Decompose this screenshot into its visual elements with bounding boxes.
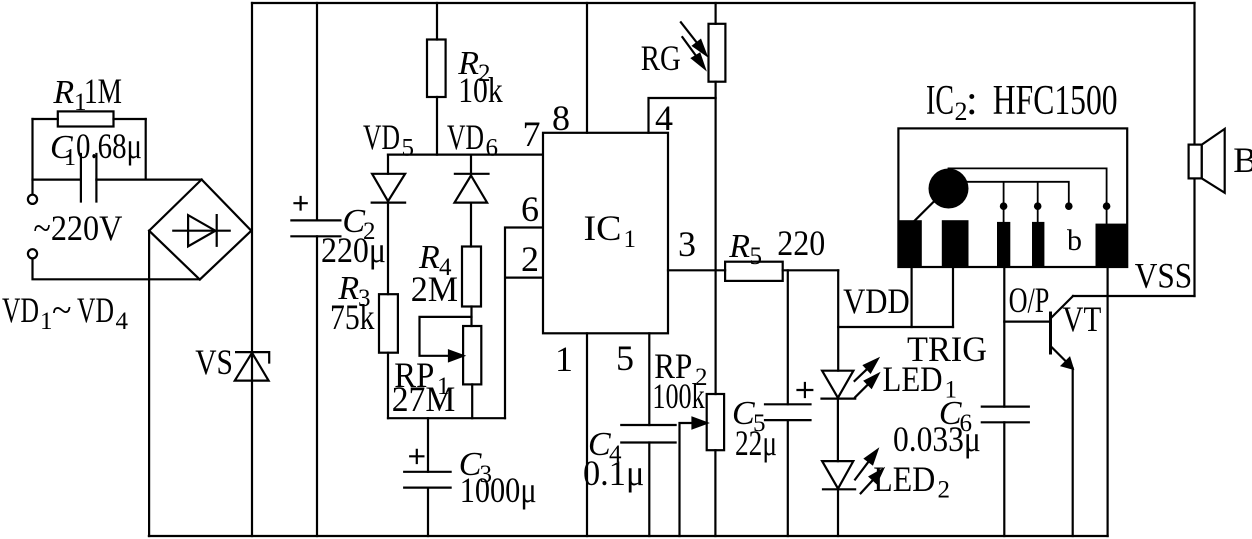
- svg-text:2: 2: [938, 477, 951, 504]
- wire bridge negative output: [148, 231, 150, 536]
- wire IC2 pin VDD: [910, 267, 912, 327]
- IC2 bond wire B: [967, 182, 1107, 224]
- potentiometer RP2: [707, 394, 724, 450]
- wire VDD rail: [837, 270, 839, 370]
- svg-text:RG: RG: [641, 38, 681, 78]
- capacitor C3: [427, 418, 429, 536]
- IC2 bond wire to pad1: [913, 202, 933, 222]
- IC2 pad 2 (TRIG): [942, 220, 969, 267]
- RG light arrow 2: [682, 37, 696, 56]
- plus C2: [295, 197, 307, 210]
- wire IC2 pin O/P: [1003, 267, 1005, 407]
- svg-text:R: R: [52, 74, 74, 111]
- svg-text:R: R: [728, 228, 750, 265]
- resistor R4: [462, 247, 481, 307]
- terminal upper: [28, 195, 37, 204]
- svg-text:O/P: O/P: [1009, 280, 1050, 320]
- wire pin 1: [586, 333, 588, 536]
- svg-text:1: 1: [40, 308, 53, 335]
- svg-text:1000μ: 1000μ: [460, 470, 537, 510]
- svg-text:22μ: 22μ: [735, 423, 777, 463]
- svg-text:5: 5: [750, 243, 763, 270]
- wire: [33, 259, 200, 280]
- capacitor C1: [81, 154, 97, 202]
- wire bottom rail: [149, 535, 1108, 537]
- svg-text:5: 5: [402, 135, 415, 162]
- resistor R5: [725, 262, 783, 281]
- svg-text:75k: 75k: [330, 297, 375, 337]
- LED LED2: [822, 461, 853, 489]
- wire IC2 pin VSS: [1106, 267, 1108, 536]
- svg-text:7: 7: [523, 114, 541, 154]
- wire pin 3: [668, 269, 725, 271]
- wire right rail: [1193, 3, 1195, 296]
- svg-text:100k: 100k: [652, 376, 704, 416]
- wire: [33, 179, 202, 181]
- svg-text:220: 220: [777, 223, 825, 263]
- svg-text:B: B: [1233, 140, 1252, 180]
- svg-text:4: 4: [116, 308, 129, 335]
- svg-text:VD: VD: [447, 117, 484, 157]
- svg-text:VT: VT: [1062, 299, 1101, 339]
- terminal lower: [28, 249, 37, 258]
- photoresistor RG: [714, 3, 716, 24]
- svg-text:b: b: [1067, 224, 1082, 257]
- plus C5: [798, 383, 813, 397]
- wire pin 8: [586, 3, 588, 133]
- wire: [470, 307, 472, 327]
- svg-text:2M: 2M: [411, 269, 458, 309]
- wire IC2 pin TRIG: [952, 267, 954, 327]
- svg-text:27M: 27M: [392, 379, 456, 419]
- potentiometer RP1: [463, 326, 481, 384]
- svg-text:~: ~: [52, 290, 71, 330]
- wire: [783, 269, 839, 271]
- IC2 bond wire A: [949, 168, 1107, 202]
- IC2 module box: [898, 128, 1127, 267]
- capacitor C6: [982, 407, 1029, 423]
- wire: [145, 119, 147, 179]
- svg-text:VSS: VSS: [1135, 256, 1193, 296]
- wire: [31, 119, 33, 194]
- svg-text:6: 6: [521, 189, 539, 229]
- wire pin 4: [649, 98, 716, 133]
- LED2 light arrows: [855, 461, 869, 479]
- svg-text:VS: VS: [195, 342, 233, 382]
- svg-text:VD: VD: [77, 290, 114, 330]
- svg-text:0.033μ: 0.033μ: [893, 419, 981, 459]
- svg-text:0.68μ: 0.68μ: [76, 126, 142, 166]
- svg-text:3: 3: [678, 224, 696, 264]
- wire: [471, 384, 473, 418]
- svg-text:1: 1: [624, 226, 637, 253]
- wire: [387, 353, 389, 419]
- IC2 bond dots: [1000, 202, 1008, 210]
- svg-text:1: 1: [555, 339, 573, 379]
- resistor R1: [58, 111, 114, 126]
- op-amp IC1 box: [543, 133, 668, 333]
- wire: [33, 118, 146, 120]
- IC2 pad 3 (O/P): [997, 222, 1010, 267]
- svg-text:6: 6: [486, 135, 499, 162]
- svg-text:IC: IC: [926, 78, 954, 124]
- svg-text:LED: LED: [883, 359, 943, 399]
- speaker B: [1189, 145, 1202, 179]
- diode VD5: [387, 155, 389, 295]
- plus C3: [410, 450, 423, 463]
- IC2 die: [929, 169, 969, 209]
- capacitor C2: [316, 3, 318, 536]
- IC2 pad 5 (VSS): [1096, 224, 1128, 267]
- svg-text:5: 5: [616, 338, 634, 378]
- svg-text:10k: 10k: [458, 70, 503, 110]
- svg-text::: :: [966, 78, 978, 124]
- IC2 pad 4: [1032, 222, 1044, 267]
- zener diode VS: [236, 352, 269, 362]
- svg-text:VDD: VDD: [843, 281, 910, 321]
- resistor R3: [379, 294, 398, 353]
- svg-text:LED: LED: [873, 459, 935, 499]
- svg-text:VD: VD: [2, 290, 39, 330]
- wire node R3-RP1-C3: [388, 417, 505, 419]
- svg-text:VD: VD: [363, 117, 400, 157]
- svg-text:220μ: 220μ: [321, 230, 386, 270]
- wire pin6-pin2 bracket: [505, 228, 543, 419]
- diode VD6: [470, 155, 472, 247]
- svg-text:0.1μ: 0.1μ: [583, 453, 644, 493]
- wire VSS to right rail: [1073, 295, 1195, 297]
- svg-text:1: 1: [64, 145, 76, 171]
- capacitor C4: [621, 425, 675, 443]
- LED LED1: [822, 371, 853, 398]
- resistor R2: [436, 3, 438, 155]
- wire left rail: [251, 3, 253, 536]
- wire node VD5-VD6-pin7: [388, 154, 543, 156]
- svg-text:4: 4: [655, 98, 673, 138]
- IC2 pad 1 (VDD): [898, 220, 921, 267]
- wire TRIG-VDD jog: [838, 326, 953, 328]
- svg-text:~220V: ~220V: [33, 208, 122, 248]
- svg-text:8: 8: [552, 98, 570, 138]
- svg-text:2: 2: [521, 239, 539, 279]
- capacitor C5: [787, 270, 789, 536]
- RG light arrow 1: [681, 22, 698, 43]
- svg-text:HFC1500: HFC1500: [993, 78, 1118, 124]
- bridge rectifier VD1~VD4: [149, 180, 251, 280]
- wire pin 5: [648, 333, 650, 425]
- svg-text:1M: 1M: [84, 71, 122, 111]
- svg-text:IC: IC: [584, 208, 622, 248]
- transistor VT: [1004, 321, 1050, 323]
- wire top rail: [252, 2, 1195, 4]
- LED1 light arrows: [855, 369, 868, 381]
